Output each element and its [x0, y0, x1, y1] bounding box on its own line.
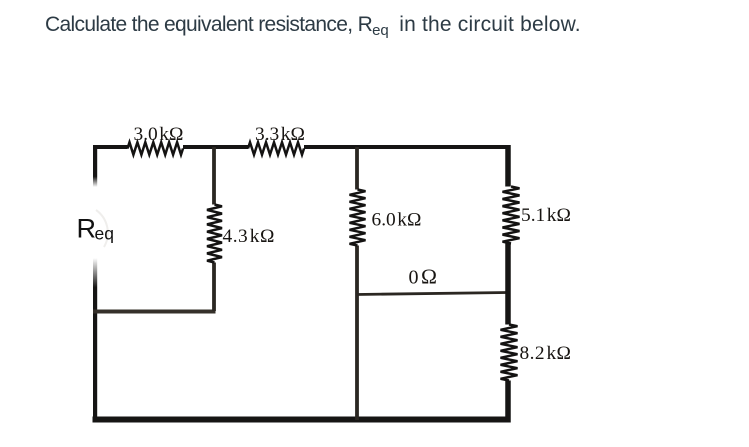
svg-text:3.0kΩ: 3.0kΩ — [134, 124, 184, 145]
svg-text:0Ω: 0Ω — [409, 265, 437, 289]
svg-text:eq: eq — [95, 224, 114, 244]
svg-text:R: R — [77, 214, 97, 244]
svg-text:5.1kΩ: 5.1kΩ — [521, 205, 571, 226]
svg-text:6.0kΩ: 6.0kΩ — [372, 210, 422, 231]
svg-text:3.3kΩ: 3.3kΩ — [255, 124, 305, 145]
svg-text:4.3kΩ: 4.3kΩ — [223, 226, 275, 247]
svg-text:8.2kΩ: 8.2kΩ — [520, 343, 572, 364]
